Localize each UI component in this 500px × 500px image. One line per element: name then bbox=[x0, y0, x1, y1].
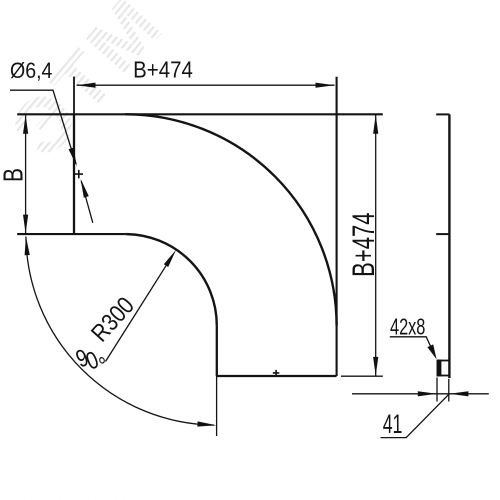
leader diameter 6,4 bbox=[10, 90, 93, 223]
side view main line bbox=[448, 114, 450, 378]
wire bottom edge bbox=[217, 375, 337, 377]
svg-text:Ø6,4: Ø6,4 bbox=[10, 59, 53, 84]
wire inner edge with extension left bbox=[17, 233, 125, 235]
wire inner vertical edge bbox=[216, 326, 218, 376]
svg-text:B+474: B+474 bbox=[133, 56, 193, 83]
extension lines 41 bbox=[437, 378, 449, 402]
dimension line 41 bbox=[352, 393, 489, 395]
wire inner arc bbox=[125, 234, 217, 326]
wire right edge with extension up bbox=[336, 77, 338, 376]
wire left edge bbox=[73, 114, 75, 234]
hole center mark 1 bbox=[75, 170, 83, 179]
side view middle tick bbox=[436, 233, 449, 235]
leader R300 bbox=[106, 258, 172, 362]
wire bottom edge extension right bbox=[341, 375, 383, 377]
hole center mark 2 bbox=[273, 370, 280, 376]
dimension line B+474 right bbox=[375, 115, 377, 376]
dimension arc 90 deg bbox=[26, 237, 214, 426]
side view top tick bbox=[436, 113, 449, 115]
dimension line B left bbox=[25, 115, 27, 234]
side view channel profile 42x8 bbox=[438, 361, 450, 376]
svg-text:B: B bbox=[0, 168, 29, 182]
leader 41 bbox=[381, 394, 450, 438]
svg-text:41: 41 bbox=[383, 409, 403, 438]
wire inner vertical extension down bbox=[216, 376, 218, 436]
wire top edge with extensions bbox=[17, 113, 383, 115]
dimension line B+474 top bbox=[77, 84, 335, 86]
wire left edge extension up bbox=[73, 77, 75, 115]
svg-text:B+474: B+474 bbox=[345, 213, 381, 277]
wire outer arc bbox=[125, 114, 336, 325]
leader 42x8 bbox=[390, 337, 434, 353]
